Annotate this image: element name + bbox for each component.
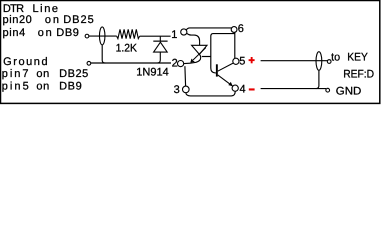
wire top line pin1 to pin6 [186, 28, 231, 30]
transistor Q1 base bar [216, 64, 218, 76]
svg-text:1.2K: 1.2K [116, 42, 138, 54]
resistor R1 zigzag [117, 29, 140, 38]
diode D1 1N914 [159, 37, 161, 42]
label: Ground block [2, 56, 89, 93]
LED cathode wire to pin2 [184, 54, 201, 63]
pin 5 circle [233, 58, 239, 64]
svg-text:2: 2 [172, 58, 178, 70]
wire oval drop right [316, 71, 319, 89]
svg-text:DB9: DB9 [56, 27, 79, 39]
wire pin6 down to pin5 [234, 32, 236, 58]
svg-text:Line: Line [33, 3, 59, 15]
svg-text:KEY: KEY [347, 52, 368, 64]
svg-text:DB9: DB9 [59, 80, 82, 92]
wire pin4 to GND [261, 88, 326, 90]
wire oval drop left [102, 45, 105, 63]
wire pin5 to KEY [261, 60, 328, 62]
svg-text:REF:D: REF:D [343, 69, 374, 81]
label: DTR Line [3, 3, 94, 39]
svg-text:1: 1 [171, 29, 177, 41]
emitter arrowhead [228, 82, 233, 86]
svg-text:on: on [38, 27, 52, 39]
svg-text:on: on [36, 68, 49, 80]
minus mark red [249, 88, 255, 90]
svg-text:1N914: 1N914 [136, 66, 169, 78]
svg-text:4: 4 [240, 83, 246, 95]
terminal Ground input [87, 61, 91, 65]
svg-text:GND: GND [336, 86, 362, 98]
pin 1 circle [181, 29, 187, 35]
svg-text:6: 6 [238, 23, 244, 35]
terminal GND [326, 88, 330, 92]
svg-text:DB25: DB25 [63, 14, 93, 26]
terminal KEY [327, 60, 331, 64]
LED emission arrow [191, 48, 206, 63]
svg-text:pin5: pin5 [2, 80, 29, 92]
svg-text:5: 5 [239, 56, 245, 68]
wire DTR to resistor [89, 35, 117, 37]
svg-text:on: on [45, 14, 59, 26]
wire pin3 to pin4 bottom [186, 91, 235, 96]
wire pin2 to pin3 [184, 66, 187, 86]
svg-text:to: to [331, 52, 340, 64]
wire resistor to pin1 [140, 35, 171, 37]
border frame [1, 1, 380, 104]
svg-text:DTR: DTR [3, 3, 24, 15]
svg-text:Ground: Ground [3, 56, 48, 68]
transistor emitter [218, 75, 233, 86]
svg-text:pin20: pin20 [3, 14, 32, 26]
pin 2 circle [178, 61, 184, 67]
svg-text:on: on [36, 80, 49, 92]
svg-text:pin7: pin7 [2, 68, 29, 80]
connector oval left [99, 27, 105, 45]
svg-text:DB25: DB25 [59, 68, 88, 80]
svg-text:pin4: pin4 [3, 27, 26, 39]
connector oval right [316, 52, 322, 71]
wire ground rail [91, 62, 171, 64]
pin 6 circle [231, 27, 237, 33]
LED cathode bar [202, 56, 211, 58]
pin 4 circle [232, 85, 238, 91]
svg-text:3: 3 [174, 84, 180, 96]
transistor collector [218, 63, 233, 71]
LED triangle [192, 45, 207, 54]
plus mark red [249, 57, 255, 63]
wire base line from pin6 vertical [211, 34, 235, 73]
terminal DTR input [85, 34, 89, 38]
pin 3 circle [183, 86, 190, 93]
LED anode wire from pin1 [187, 33, 200, 45]
